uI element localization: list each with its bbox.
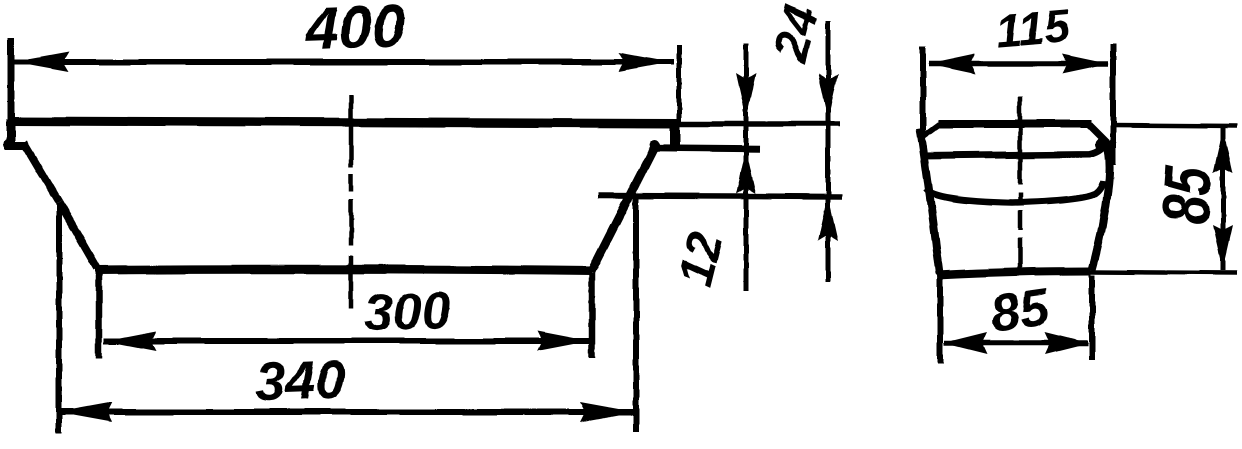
arrow 85 bottom right [1045, 332, 1089, 354]
left wall [920, 128, 940, 274]
bottom line [95, 269, 592, 271]
arrow 115 right [1062, 54, 1109, 74]
centerline left view [349, 95, 354, 308]
dim line 400 [14, 59, 674, 65]
svg-text:85: 85 [987, 278, 1053, 344]
dim line 24 vertical [826, 21, 831, 282]
arrow 400 left [14, 52, 69, 72]
left wall slope lower [59, 202, 97, 268]
top edge [938, 120, 1091, 128]
left lip foot [5, 142, 28, 150]
slope-break extension line C [598, 196, 842, 197]
arrow 85 bottom left [943, 332, 987, 354]
left wall slope upper [24, 143, 59, 202]
arrow 12 down [736, 73, 756, 118]
rim top extension line to right [676, 121, 840, 127]
ext line 400 left [8, 38, 15, 122]
svg-text:115: 115 [994, 0, 1073, 57]
svg-text:400: 400 [303, 0, 406, 63]
arrow 340 right [580, 402, 635, 422]
dim line 115 [929, 61, 1108, 67]
dim line 85 right vertical [1221, 128, 1226, 270]
right wall slope [591, 144, 656, 272]
corner blob left view ledge [650, 140, 660, 150]
dim line 300 [104, 338, 589, 344]
arrow 115 left [928, 54, 975, 74]
right wall [1092, 141, 1110, 270]
arrow 400 right [619, 52, 674, 72]
inner bottom curve [926, 181, 1103, 203]
ext line 340 right [633, 197, 639, 432]
bottom extension to right [1091, 272, 1237, 273]
corner blob right view top-right [1095, 138, 1107, 150]
dim line 12 vertical [744, 44, 749, 291]
right step vertical [670, 121, 680, 148]
arrow 12 up [736, 150, 756, 194]
top left chamfer [922, 123, 941, 137]
top extension to right [1110, 125, 1237, 126]
arrow 300 left [104, 331, 156, 351]
svg-text:300: 300 [363, 282, 452, 343]
ext line 85 bottom left [937, 278, 943, 364]
ext line 300 left [96, 270, 103, 358]
rim bottom line [921, 141, 1107, 156]
arrow 24 down [818, 74, 838, 119]
ext line 115 left [920, 46, 926, 137]
top right chamfer [1089, 125, 1107, 143]
ext line 115 right [1110, 44, 1116, 165]
rim top line [10, 121, 678, 124]
right ledge line B [650, 148, 760, 149]
svg-text:85: 85 [1148, 163, 1227, 227]
ext line 400 right [677, 45, 682, 122]
arrow 85 right down [1213, 225, 1233, 269]
dim line 85 bottom [944, 340, 1088, 346]
arrow 340 left [57, 402, 112, 422]
ext line 340 left [56, 204, 62, 433]
arrow 300 right [537, 331, 589, 351]
arrow 85 right up [1213, 129, 1233, 173]
bottom edge [937, 271, 1091, 275]
left lip vertical [7, 119, 16, 146]
svg-text:340: 340 [254, 349, 346, 412]
svg-text:24: 24 [763, 0, 829, 67]
ext line 300 right [589, 273, 596, 358]
svg-text:12: 12 [668, 226, 734, 292]
arrow 24 up [818, 196, 838, 241]
centerline right view [1018, 96, 1023, 274]
ext line 85 bottom right [1089, 275, 1095, 360]
dim line 340 [57, 409, 634, 415]
lip blob left view [4, 138, 16, 150]
